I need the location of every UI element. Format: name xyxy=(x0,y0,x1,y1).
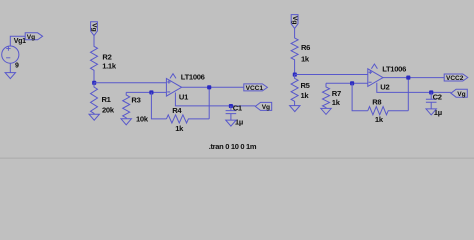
node feedback tap U1 xyxy=(149,90,153,94)
node output junction U2 xyxy=(406,76,410,80)
net flag Vg at C2 xyxy=(451,89,467,97)
svg-text:9: 9 xyxy=(15,62,19,69)
wire inverting input U2 xyxy=(326,82,368,84)
resistor R7 xyxy=(323,83,330,108)
ground below C2 xyxy=(426,109,436,115)
resistor R2 xyxy=(91,36,98,83)
svg-text:10k: 10k xyxy=(136,115,149,124)
svg-text:R7: R7 xyxy=(332,89,341,98)
wire noninverting input U1 xyxy=(94,82,166,84)
capacitor C2 xyxy=(426,92,437,109)
resistor R1 xyxy=(91,83,98,114)
resistor R5 xyxy=(291,75,298,106)
net flag Vg above R6 xyxy=(291,15,298,29)
svg-text:Vg: Vg xyxy=(457,91,465,98)
ground below R7 xyxy=(321,108,331,114)
svg-text:1k: 1k xyxy=(375,115,384,124)
node C1 junction xyxy=(229,104,233,108)
node junction R6/R5 xyxy=(293,73,297,77)
voltage source Vg1 xyxy=(2,46,19,63)
ground below R5 xyxy=(290,106,300,112)
wire U2 V- pin to C2 and Vg xyxy=(377,83,451,93)
svg-text:Vg: Vg xyxy=(291,16,298,24)
wire inverting input U1 xyxy=(126,91,166,93)
svg-text:LT1006: LT1006 xyxy=(181,73,205,82)
net flag Vg at C1 xyxy=(255,102,271,110)
net flag VCC1 xyxy=(244,84,268,91)
wire feedback up to output U2 xyxy=(407,78,409,111)
svg-text:C1: C1 xyxy=(233,103,243,112)
svg-text:U1: U1 xyxy=(179,93,189,102)
wire feedback down-left U1 xyxy=(151,92,166,119)
net flag VCC2 xyxy=(444,74,468,81)
resistor R6 xyxy=(291,28,298,74)
ground below source xyxy=(5,73,15,79)
capacitor C1 xyxy=(226,106,237,120)
node output junction U1 xyxy=(207,85,211,89)
wire feedback up to output U1 xyxy=(208,87,210,119)
node C2 junction xyxy=(429,90,433,94)
wire feedback down-left U2 xyxy=(352,83,368,110)
svg-text:R2: R2 xyxy=(102,53,111,62)
op-amp U1 LT1006 xyxy=(166,79,181,97)
svg-text:1k: 1k xyxy=(175,124,184,133)
wire output U2 xyxy=(383,77,444,79)
resistor R3 xyxy=(123,92,130,118)
svg-text:R1: R1 xyxy=(102,95,112,104)
wire noninverting input U2 xyxy=(295,74,368,76)
resistor R8 xyxy=(368,107,409,115)
svg-text:1k: 1k xyxy=(301,91,310,100)
node feedback tap U2 xyxy=(350,81,354,85)
svg-text:R3: R3 xyxy=(131,96,140,105)
net flag Vg at source xyxy=(25,33,42,40)
wire U1 V- pin to C1 and Vg xyxy=(175,93,255,106)
svg-text:.tran 0 10 0 1m: .tran 0 10 0 1m xyxy=(209,142,257,151)
svg-text:R5: R5 xyxy=(301,81,311,90)
svg-text:1k: 1k xyxy=(332,98,341,107)
svg-text:1.1k: 1.1k xyxy=(102,61,117,70)
op-amp U2 LT1006 xyxy=(368,69,383,87)
ground below R3 xyxy=(121,119,131,125)
node junction R2/R1 xyxy=(92,81,96,85)
wire src bottom xyxy=(9,63,11,72)
svg-text:Vg: Vg xyxy=(27,34,35,41)
svg-text:U2: U2 xyxy=(380,83,389,92)
svg-text:1k: 1k xyxy=(301,55,310,64)
bottom window edge xyxy=(0,157,474,159)
svg-text:Vg: Vg xyxy=(262,104,270,111)
svg-text:C2: C2 xyxy=(433,93,442,102)
svg-text:R4: R4 xyxy=(172,106,182,115)
svg-text:20k: 20k xyxy=(102,106,115,115)
net flag Vg above R2 xyxy=(91,22,98,36)
resistor R4 xyxy=(166,115,209,123)
svg-text:R6: R6 xyxy=(301,43,310,52)
svg-text:Vg1: Vg1 xyxy=(14,38,26,45)
wire output U1 xyxy=(182,86,244,88)
ground below R1 xyxy=(89,114,99,120)
svg-text:VCC2: VCC2 xyxy=(446,75,464,82)
wire src top xyxy=(10,36,25,46)
svg-text:1µ: 1µ xyxy=(235,118,243,127)
svg-text:VCC1: VCC1 xyxy=(246,85,264,92)
svg-text:Vg: Vg xyxy=(91,23,98,31)
ground below C1 xyxy=(226,120,236,126)
svg-text:LT1006: LT1006 xyxy=(382,65,406,74)
svg-text:R8: R8 xyxy=(372,98,381,107)
